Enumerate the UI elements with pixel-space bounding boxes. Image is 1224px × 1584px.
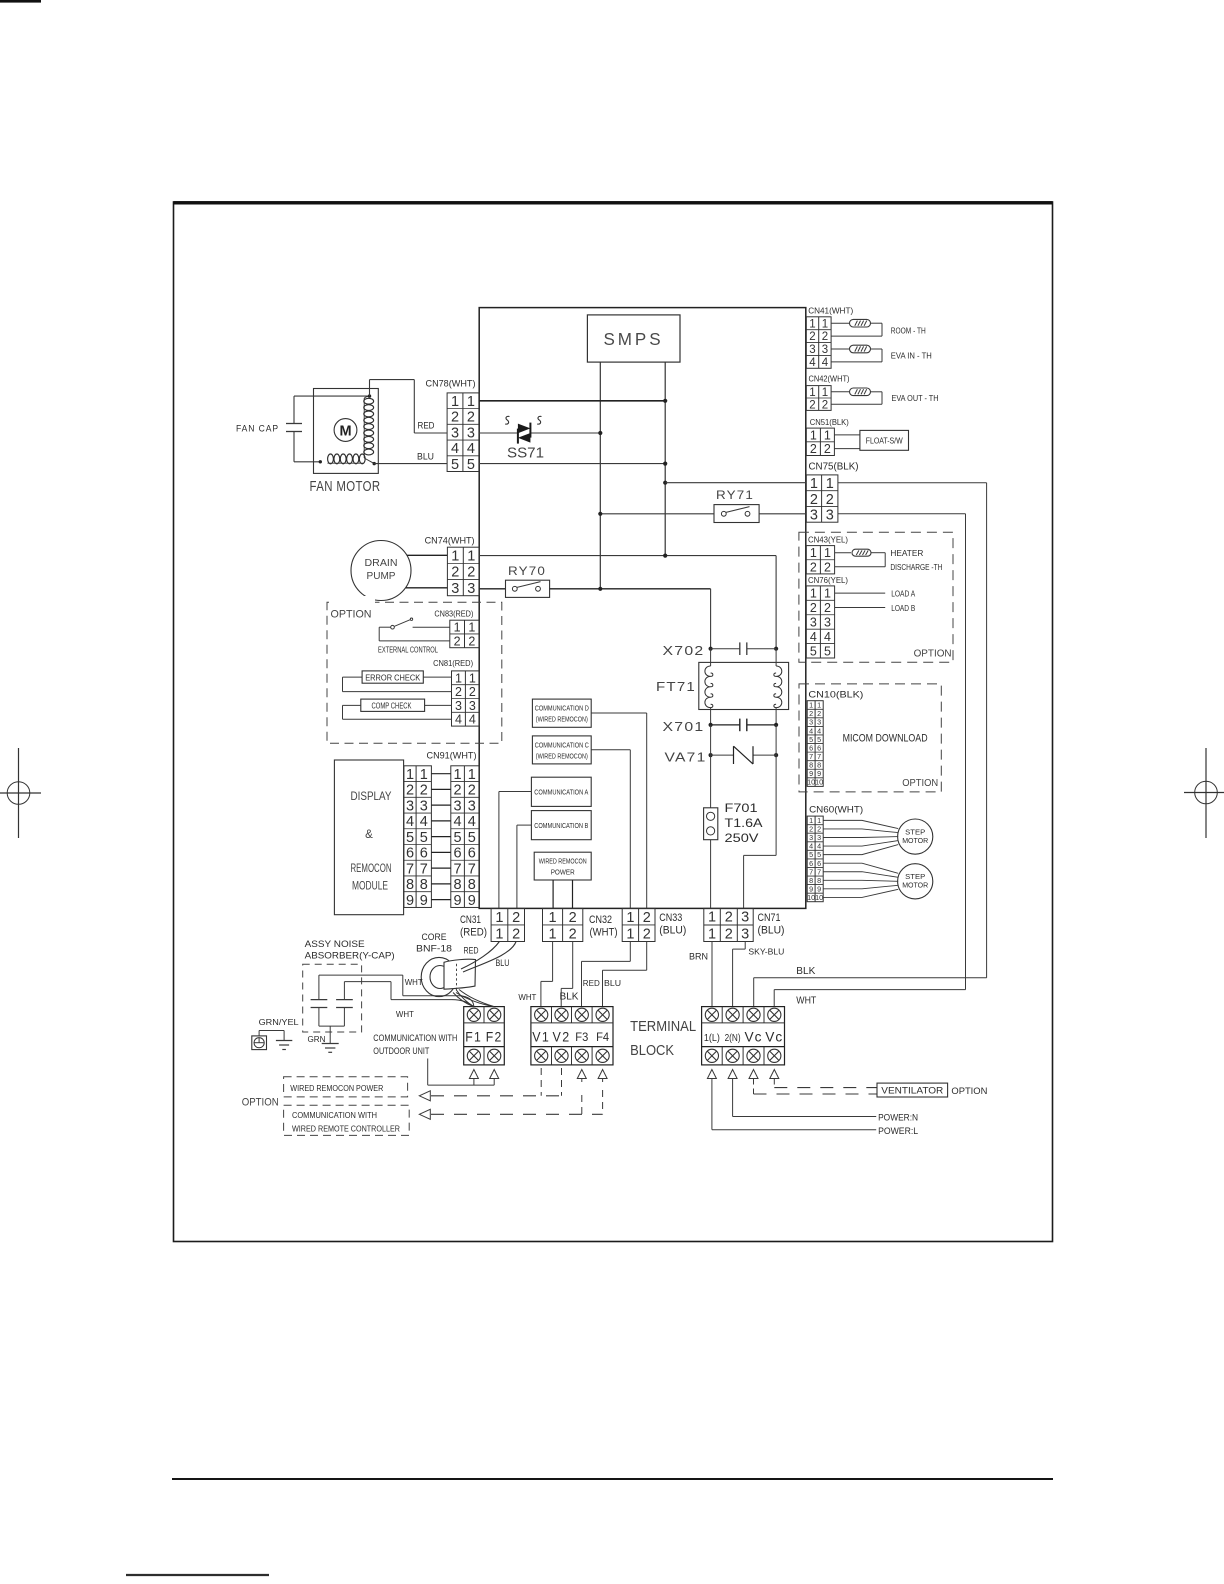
svg-text:OPTION: OPTION xyxy=(914,649,952,660)
svg-text:2: 2 xyxy=(824,560,831,574)
svg-text:ABSORBER(Y-CAP): ABSORBER(Y-CAP) xyxy=(305,951,395,961)
connector CN41(WHT) xyxy=(806,306,853,369)
terminal block 1L 2N Vc Vc xyxy=(702,1007,785,1065)
wire SMPS right pin xyxy=(664,362,666,556)
svg-text:CN31: CN31 xyxy=(460,914,481,926)
connector CN31(RED) xyxy=(460,908,525,942)
svg-text:COMMUNICATION WITH: COMMUNICATION WITH xyxy=(292,1110,377,1120)
svg-text:ERROR CHECK: ERROR CHECK xyxy=(365,672,420,682)
svg-text:1: 1 xyxy=(469,671,476,685)
svg-text:RY70: RY70 xyxy=(508,566,546,578)
svg-text:7: 7 xyxy=(454,861,462,877)
svg-text:3: 3 xyxy=(822,344,828,356)
arrows F1 F2 from outdoor unit xyxy=(428,1059,499,1086)
wires WIRED REMOCON POWER to CN32 xyxy=(553,880,572,908)
svg-text:X702: X702 xyxy=(663,644,705,658)
varistor VA71 xyxy=(665,725,779,808)
step motor M3 xyxy=(898,864,933,899)
svg-text:MOTOR: MOTOR xyxy=(902,836,928,845)
svg-text:2: 2 xyxy=(643,926,651,942)
assy noise absorber label xyxy=(305,939,395,961)
wire BLU CN31 pin2 through core xyxy=(463,942,516,973)
svg-text:OUTDOOR UNIT: OUTDOOR UNIT xyxy=(373,1046,429,1056)
wire WHT ycap to core lower xyxy=(344,982,471,1019)
svg-text:MICOM DOWNLOAD: MICOM DOWNLOAD xyxy=(843,733,928,745)
wire WHT ycap to core upper xyxy=(319,975,474,1007)
svg-text:POWER:L: POWER:L xyxy=(878,1126,918,1136)
svg-text:4: 4 xyxy=(455,713,462,727)
wire CN78 pin5 xyxy=(479,462,667,466)
svg-text:1: 1 xyxy=(468,621,475,635)
svg-text:4: 4 xyxy=(468,814,476,830)
svg-text:CN42(WHT): CN42(WHT) xyxy=(809,374,850,384)
svg-text:OPTION: OPTION xyxy=(951,1086,987,1096)
svg-text:10: 10 xyxy=(815,778,823,787)
svg-text:3: 3 xyxy=(809,344,815,356)
svg-text:3: 3 xyxy=(420,798,428,814)
footer rule xyxy=(172,1478,1053,1480)
svg-text:4: 4 xyxy=(406,814,414,830)
svg-text:2: 2 xyxy=(569,910,577,926)
svg-text:(BLU): (BLU) xyxy=(659,925,686,937)
svg-text:1: 1 xyxy=(626,926,634,942)
svg-text:1: 1 xyxy=(495,926,503,942)
svg-text:COMMUNICATION D: COMMUNICATION D xyxy=(535,706,589,713)
fan motor label xyxy=(310,478,381,495)
thermistor EVA IN-TH loop xyxy=(831,345,932,362)
terminal block V1 V2 F3 F4 xyxy=(531,1007,613,1065)
svg-text:COMMUNICATION B: COMMUNICATION B xyxy=(534,823,588,830)
svg-text:4: 4 xyxy=(469,713,476,727)
svg-text:LOAD B: LOAD B xyxy=(891,604,915,613)
wire CN78 pin3 segment xyxy=(479,431,603,435)
svg-text:GRN: GRN xyxy=(308,1034,326,1044)
svg-text:1: 1 xyxy=(824,587,831,601)
wires module to CN91 xyxy=(431,774,450,900)
svg-text:1: 1 xyxy=(495,910,503,926)
svg-text:WIRED REMOCON: WIRED REMOCON xyxy=(539,859,587,866)
svg-text:2: 2 xyxy=(454,783,462,799)
svg-text:5: 5 xyxy=(451,457,459,473)
svg-text:CN76(YEL): CN76(YEL) xyxy=(808,576,848,585)
svg-text:3: 3 xyxy=(455,699,462,713)
Y-capacitor C2 xyxy=(336,982,353,1027)
svg-text:Vc: Vc xyxy=(765,1030,783,1045)
wire COMM B to CN31 pin2 xyxy=(517,825,532,908)
svg-text:1: 1 xyxy=(420,767,428,783)
line filter FT71 xyxy=(656,649,789,725)
wire CN78 pin1 to SMPS right line xyxy=(479,399,667,403)
svg-text:FLOAT-S/W: FLOAT-S/W xyxy=(866,437,903,446)
wire fan cap bottom to winding xyxy=(294,460,322,463)
svg-text:4: 4 xyxy=(810,630,817,644)
svg-text:6: 6 xyxy=(406,846,414,862)
svg-text:RED: RED xyxy=(418,421,435,431)
svg-text:CN83(RED): CN83(RED) xyxy=(434,610,473,619)
svg-text:SMPS: SMPS xyxy=(604,329,664,349)
wire POWER N from 2N xyxy=(733,1079,919,1123)
svg-text:FT71: FT71 xyxy=(656,680,696,694)
svg-text:CN60(WHT): CN60(WHT) xyxy=(809,804,863,815)
capacitor X701 xyxy=(663,719,779,734)
svg-text:8: 8 xyxy=(468,877,476,893)
fan motor M1 box xyxy=(314,389,379,474)
svg-text:1: 1 xyxy=(810,546,817,560)
OPTION dashed box heater loads xyxy=(799,532,953,662)
svg-text:3: 3 xyxy=(741,910,749,926)
registration mark left xyxy=(0,748,41,838)
svg-text:1: 1 xyxy=(455,671,462,685)
svg-text:2: 2 xyxy=(451,410,459,426)
svg-text:1: 1 xyxy=(406,767,414,783)
wire COMM D to CN33 pin2 xyxy=(591,713,647,908)
connector CN60(WHT) xyxy=(807,804,863,903)
module side header xyxy=(404,766,432,909)
svg-text:2: 2 xyxy=(467,410,475,426)
svg-text:2: 2 xyxy=(725,926,733,942)
wire CN71 pin1 BRN to 1L xyxy=(689,942,712,1007)
svg-text:3: 3 xyxy=(824,615,831,629)
svg-text:9: 9 xyxy=(420,893,428,909)
svg-text:CN91(WHT): CN91(WHT) xyxy=(427,750,477,761)
svg-text:3: 3 xyxy=(741,926,749,942)
svg-text:9: 9 xyxy=(406,893,414,909)
wire CN75 pin3 WHT to Vc xyxy=(774,514,965,1007)
svg-text:4: 4 xyxy=(454,814,462,830)
svg-text:2(N): 2(N) xyxy=(725,1032,741,1044)
svg-text:REMOCON: REMOCON xyxy=(351,863,392,875)
ERROR CHECK jumper xyxy=(343,671,452,692)
svg-text:RED: RED xyxy=(583,978,600,988)
svg-text:HEATER: HEATER xyxy=(890,549,923,558)
svg-text:PUMP: PUMP xyxy=(367,570,396,582)
svg-text:(WIRED REMOCON): (WIRED REMOCON) xyxy=(536,717,588,724)
MICOM DOWNLOAD label xyxy=(843,733,928,745)
svg-text:CN75(BLK): CN75(BLK) xyxy=(809,462,859,473)
wire drain pump pin1 xyxy=(407,554,448,556)
wire CN33 pin2 BLU to F4 xyxy=(603,942,647,1007)
WIRED REMOCON POWER box xyxy=(534,852,591,880)
svg-text:X701: X701 xyxy=(663,720,705,734)
svg-text:&: & xyxy=(365,829,373,841)
svg-text:6: 6 xyxy=(468,846,476,862)
thermistor EVA OUT-TH loop xyxy=(831,388,938,404)
svg-text:1: 1 xyxy=(708,926,716,942)
dashed stubs V1 V2 xyxy=(541,1068,561,1096)
svg-text:2: 2 xyxy=(810,442,817,456)
svg-text:V1: V1 xyxy=(532,1030,550,1045)
svg-text:7: 7 xyxy=(420,861,428,877)
wire CN75 pin1 BLK to Vc xyxy=(754,483,987,1007)
wire filter right to CN71 pin3 xyxy=(744,755,777,908)
svg-text:CN81(RED): CN81(RED) xyxy=(433,659,473,668)
Y-capacitor C1 xyxy=(311,975,328,1026)
svg-text:2: 2 xyxy=(420,783,428,799)
svg-text:1: 1 xyxy=(809,387,815,399)
svg-text:WIRED REMOTE CONTROLLER: WIRED REMOTE CONTROLLER xyxy=(292,1124,400,1134)
svg-text:3: 3 xyxy=(810,508,818,524)
svg-text:1: 1 xyxy=(809,318,815,330)
capacitor X702 xyxy=(663,642,779,658)
svg-text:WHT: WHT xyxy=(518,992,537,1002)
svg-text:F4: F4 xyxy=(596,1030,609,1044)
svg-text:BLU: BLU xyxy=(604,978,621,988)
page border frame xyxy=(174,202,1053,1242)
svg-text:V2: V2 xyxy=(553,1030,571,1045)
svg-text:(BLU): (BLU) xyxy=(758,925,785,937)
svg-text:3: 3 xyxy=(826,508,834,524)
svg-text:4: 4 xyxy=(809,357,816,369)
OPTION label remocon xyxy=(242,1097,279,1109)
connector CN74(WHT) xyxy=(425,536,480,597)
fuse F701 T1.6A 250V xyxy=(704,803,763,845)
wire CN32 pin1 WHT to V1 xyxy=(518,942,552,1007)
thermistor ROOM-TH loop xyxy=(831,319,926,336)
svg-text:1: 1 xyxy=(451,394,459,410)
svg-text:1: 1 xyxy=(822,387,828,399)
svg-text:WHT: WHT xyxy=(405,977,424,987)
svg-text:EVA IN - TH: EVA IN - TH xyxy=(891,352,932,361)
svg-text:8: 8 xyxy=(406,877,414,893)
svg-text:FAN CAP: FAN CAP xyxy=(236,424,279,434)
svg-text:3: 3 xyxy=(467,581,475,597)
svg-text:5: 5 xyxy=(454,830,462,846)
svg-text:3: 3 xyxy=(451,581,459,597)
svg-text:2: 2 xyxy=(512,910,520,926)
MICOM DOWNLOAD dashed box xyxy=(799,684,941,792)
svg-text:F3: F3 xyxy=(575,1030,588,1044)
wire CN33 pin1 RED to F3 xyxy=(582,942,631,1007)
svg-text:1: 1 xyxy=(451,549,459,565)
wire POWER L from 1L xyxy=(712,1079,918,1136)
svg-text:7: 7 xyxy=(406,861,414,877)
core BNF-18 xyxy=(416,932,476,997)
svg-text:EXTERNAL CONTROL: EXTERNAL CONTROL xyxy=(378,645,438,655)
svg-text:(WHT): (WHT) xyxy=(590,927,618,939)
svg-text:MODULE: MODULE xyxy=(352,881,388,893)
svg-text:COMP CHECK: COMP CHECK xyxy=(372,701,412,711)
footer link line xyxy=(126,1574,269,1576)
svg-text:4: 4 xyxy=(824,630,831,644)
svg-text:1: 1 xyxy=(822,318,828,330)
COMMUNICATION B box xyxy=(531,811,591,840)
wire filter left branch xyxy=(710,589,712,649)
svg-text:2: 2 xyxy=(643,910,651,926)
svg-text:3: 3 xyxy=(467,425,475,441)
svg-text:3: 3 xyxy=(810,615,817,629)
svg-text:3: 3 xyxy=(468,798,476,814)
svg-text:6: 6 xyxy=(454,846,462,862)
svg-text:1: 1 xyxy=(454,767,462,783)
dashed line wired remocon power xyxy=(419,1091,561,1101)
connector CN75(BLK) xyxy=(806,462,858,524)
svg-text:F1: F1 xyxy=(465,1030,482,1045)
svg-text:8: 8 xyxy=(454,877,462,893)
connector CN33(BLU) xyxy=(622,908,686,942)
svg-text:BLU: BLU xyxy=(417,452,434,462)
wire CN75 pin1 from SMPS right line xyxy=(663,481,806,485)
VENTILATOR option box xyxy=(877,1083,987,1097)
SMPS block U-SMPS xyxy=(587,315,680,362)
svg-text:MOTOR: MOTOR xyxy=(902,881,928,890)
svg-text:3: 3 xyxy=(406,798,414,814)
svg-text:GRN/YEL: GRN/YEL xyxy=(259,1017,299,1027)
svg-text:5: 5 xyxy=(406,830,414,846)
wires CN60 to step motors xyxy=(823,820,898,897)
svg-text:ASSY NOISE: ASSY NOISE xyxy=(305,939,365,949)
connector CN51(BLK) xyxy=(806,418,849,456)
svg-text:BLK: BLK xyxy=(796,966,815,977)
OPTION label heater xyxy=(914,649,952,660)
svg-text:5: 5 xyxy=(468,830,476,846)
svg-text:BNF-18: BNF-18 xyxy=(416,944,452,954)
svg-text:5: 5 xyxy=(467,457,475,473)
svg-text:7: 7 xyxy=(468,861,476,877)
dashed wires Vc to ventilator xyxy=(754,1079,878,1095)
connector CN42(WHT) xyxy=(806,374,849,412)
svg-text:2: 2 xyxy=(810,560,817,574)
float switch FLOAT-S/W xyxy=(834,430,908,450)
svg-text:CN33: CN33 xyxy=(659,912,682,924)
svg-text:(RED): (RED) xyxy=(460,927,487,939)
COMMUNICATION A box xyxy=(531,777,591,806)
svg-text:F2: F2 xyxy=(486,1030,503,1045)
communication with outdoor unit label xyxy=(373,1033,457,1056)
svg-text:2: 2 xyxy=(467,565,475,581)
fan motor main winding coil xyxy=(364,394,374,458)
svg-text:1: 1 xyxy=(626,910,634,926)
svg-text:6: 6 xyxy=(420,846,428,862)
wire CN71 pin3 SKY-BLU to 2N xyxy=(733,942,785,1007)
svg-text:OPTION: OPTION xyxy=(331,609,372,621)
display and remocon module xyxy=(334,760,403,915)
svg-text:DRAIN: DRAIN xyxy=(365,557,398,569)
registration mark right xyxy=(1184,748,1224,838)
svg-text:TERMINAL: TERMINAL xyxy=(630,1019,696,1035)
connector CN10(BLK) xyxy=(807,689,863,787)
svg-text:CN32: CN32 xyxy=(589,914,612,926)
svg-text:1: 1 xyxy=(826,476,834,492)
svg-text:LOAD A: LOAD A xyxy=(891,590,915,599)
svg-text:BLOCK: BLOCK xyxy=(630,1043,674,1059)
svg-text:SKY-BLU: SKY-BLU xyxy=(748,947,784,957)
Y-cap dashed box xyxy=(303,964,362,1032)
wire fuse to CN71 pin1 xyxy=(710,840,712,909)
svg-text:COMMUNICATION C: COMMUNICATION C xyxy=(535,742,589,749)
fan capacitor FAN CAP xyxy=(236,396,302,462)
svg-text:M: M xyxy=(339,423,351,439)
svg-text:10: 10 xyxy=(807,778,815,787)
svg-text:250V: 250V xyxy=(725,833,759,845)
svg-text:1: 1 xyxy=(708,910,716,926)
wires core to F1 F2 xyxy=(453,990,494,1007)
svg-text:CORE: CORE xyxy=(422,932,447,942)
svg-text:2: 2 xyxy=(569,926,577,942)
ground chassis xyxy=(276,1041,292,1050)
svg-text:1: 1 xyxy=(810,476,818,492)
fan motor aux winding coil xyxy=(328,454,366,464)
svg-text:VA71: VA71 xyxy=(665,751,707,765)
svg-text:2: 2 xyxy=(809,331,815,343)
svg-text:2: 2 xyxy=(810,601,817,615)
svg-text:2: 2 xyxy=(512,926,520,942)
svg-text:T1.6A: T1.6A xyxy=(725,818,763,830)
terminal block label xyxy=(630,1019,696,1059)
svg-text:CN51(BLK): CN51(BLK) xyxy=(810,418,849,427)
svg-text:OPTION: OPTION xyxy=(902,778,938,789)
wire filter right branch xyxy=(775,556,777,649)
svg-text:2: 2 xyxy=(826,492,834,508)
WIRED REMOCON POWER dashed box xyxy=(284,1077,408,1097)
svg-text:POWER: POWER xyxy=(551,870,575,877)
triac SS71 xyxy=(505,416,544,461)
svg-text:1: 1 xyxy=(467,394,475,410)
svg-text:3: 3 xyxy=(451,425,459,441)
svg-text:1: 1 xyxy=(467,549,475,565)
svg-text:3: 3 xyxy=(454,798,462,814)
connector CN43(YEL) xyxy=(806,536,848,575)
svg-text:8: 8 xyxy=(420,877,428,893)
svg-text:4: 4 xyxy=(467,441,475,457)
svg-text:3: 3 xyxy=(469,699,476,713)
step motor M2 xyxy=(898,819,933,854)
svg-text:5: 5 xyxy=(810,644,817,658)
ground ycap xyxy=(308,1026,345,1052)
svg-text:2: 2 xyxy=(810,492,818,508)
svg-text:2: 2 xyxy=(451,565,459,581)
svg-text:CN10(BLK): CN10(BLK) xyxy=(808,689,863,700)
svg-text:(WIRED REMOCON): (WIRED REMOCON) xyxy=(536,753,588,760)
svg-text:5: 5 xyxy=(420,830,428,846)
wire LOAD B xyxy=(835,604,916,613)
svg-text:2: 2 xyxy=(468,634,475,648)
svg-text:COMMUNICATION WITH: COMMUNICATION WITH xyxy=(373,1033,457,1043)
connector CN81(RED) xyxy=(433,659,479,727)
svg-text:1: 1 xyxy=(824,428,831,442)
wire fan motor RED lead to CN78 pin3 xyxy=(370,380,448,433)
connector CN83(RED) xyxy=(434,610,479,649)
svg-text:2: 2 xyxy=(468,783,476,799)
svg-text:5: 5 xyxy=(824,644,831,658)
wire drain pump pin3 xyxy=(406,587,448,589)
svg-text:WIRED REMOCON POWER: WIRED REMOCON POWER xyxy=(290,1083,383,1093)
svg-text:BRN: BRN xyxy=(689,952,708,962)
OPTION dashed box external control xyxy=(327,596,502,743)
connector CN71(BLU) xyxy=(704,908,785,942)
connector CN32(WHT) xyxy=(543,908,618,942)
svg-text:COMMUNICATION A: COMMUNICATION A xyxy=(534,790,588,797)
arrows F3 F4 xyxy=(577,1070,607,1115)
svg-text:4: 4 xyxy=(822,357,829,369)
wire CN74 pin1 to filter right line xyxy=(479,554,776,558)
drain pump motor xyxy=(351,541,411,601)
connector CN91(WHT) xyxy=(427,750,480,909)
svg-text:ROOM - TH: ROOM - TH xyxy=(891,327,926,336)
svg-text:CN78(WHT): CN78(WHT) xyxy=(426,379,476,389)
svg-text:4: 4 xyxy=(451,441,459,457)
relay RY71 xyxy=(598,490,806,523)
svg-text:1: 1 xyxy=(810,587,817,601)
thermistor HEATER DISCHARGE-TH xyxy=(835,549,943,572)
svg-text:2: 2 xyxy=(406,783,414,799)
svg-text:CN41(WHT): CN41(WHT) xyxy=(808,306,853,316)
svg-text:9: 9 xyxy=(454,893,462,909)
COMMUNICATION D box xyxy=(532,699,591,727)
main PCB outline xyxy=(479,308,806,909)
svg-text:1: 1 xyxy=(824,546,831,560)
svg-text:9: 9 xyxy=(468,893,476,909)
svg-text:F701: F701 xyxy=(725,803,758,815)
